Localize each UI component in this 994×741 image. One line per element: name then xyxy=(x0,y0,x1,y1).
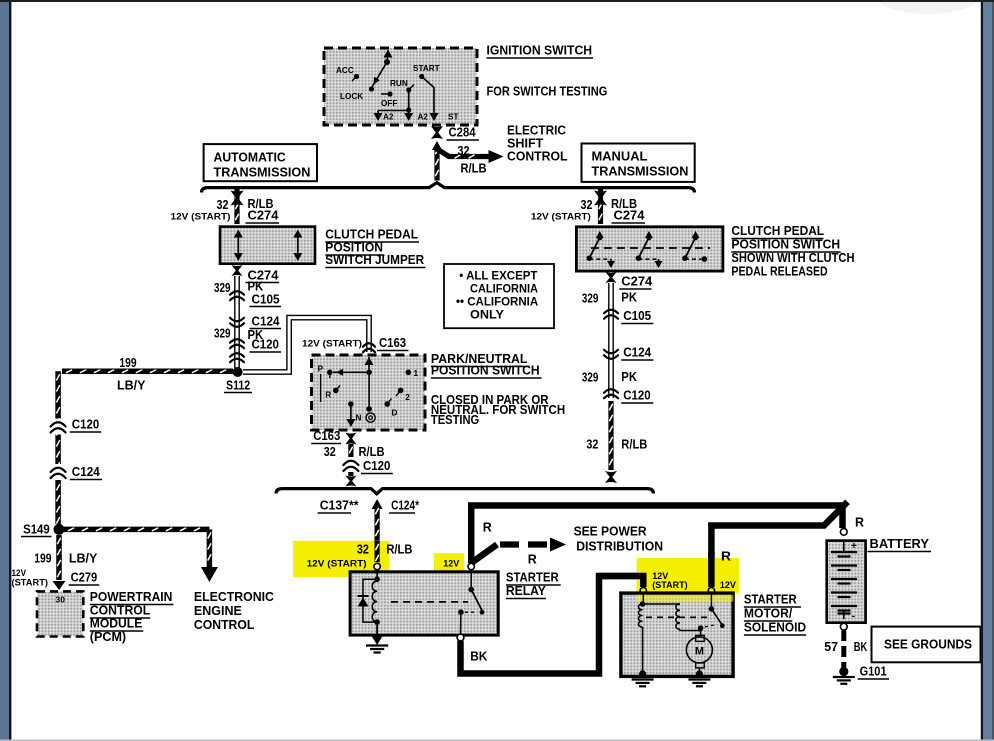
svg-text:OFF: OFF xyxy=(381,99,397,108)
svg-text:C105: C105 xyxy=(252,293,280,307)
svg-text:POSITION SWITCH: POSITION SWITCH xyxy=(431,364,540,378)
svg-text:IGNITION SWITCH: IGNITION SWITCH xyxy=(487,44,593,58)
svg-text:C124: C124 xyxy=(252,315,280,329)
svg-text:C124: C124 xyxy=(72,465,100,479)
svg-text:CLUTCH PEDAL: CLUTCH PEDAL xyxy=(325,228,418,242)
svg-text:R: R xyxy=(528,553,537,567)
svg-text:329: 329 xyxy=(582,371,599,385)
svg-text:AUTOMATIC: AUTOMATIC xyxy=(214,151,286,165)
svg-text:N: N xyxy=(356,414,362,423)
svg-text:+: + xyxy=(851,541,857,552)
svg-text:S112: S112 xyxy=(226,379,250,393)
svg-text:C105: C105 xyxy=(623,309,651,323)
svg-text:R: R xyxy=(721,550,731,564)
svg-text:12V: 12V xyxy=(12,568,27,578)
svg-text:ENGINE: ENGINE xyxy=(194,604,242,618)
svg-text:32: 32 xyxy=(581,198,593,212)
svg-text:12V (START): 12V (START) xyxy=(307,559,367,569)
svg-text:RUN: RUN xyxy=(390,79,408,88)
svg-text:30: 30 xyxy=(56,595,66,605)
svg-text:(START): (START) xyxy=(652,580,687,590)
svg-text:SHOWN WITH CLUTCH: SHOWN WITH CLUTCH xyxy=(731,251,854,265)
svg-text:C124: C124 xyxy=(623,346,651,360)
svg-text:R/LB: R/LB xyxy=(461,162,487,176)
svg-text:SEE POWER: SEE POWER xyxy=(574,525,647,539)
svg-text:LB/Y: LB/Y xyxy=(69,552,98,566)
svg-text:G101: G101 xyxy=(860,665,887,679)
svg-text:SHIFT: SHIFT xyxy=(507,137,544,151)
svg-text:ELECTRIC: ELECTRIC xyxy=(507,124,566,138)
svg-text:SWITCH JUMPER: SWITCH JUMPER xyxy=(325,253,424,267)
svg-text:C163: C163 xyxy=(379,336,406,350)
svg-text:329: 329 xyxy=(582,292,599,306)
svg-text:START: START xyxy=(413,64,440,73)
svg-text:M: M xyxy=(695,646,704,658)
svg-text:S149: S149 xyxy=(23,523,50,537)
svg-text:C120: C120 xyxy=(363,459,390,473)
svg-text:SOLENOID: SOLENOID xyxy=(744,621,806,635)
svg-text:(START): (START) xyxy=(12,578,49,588)
svg-text:R/LB: R/LB xyxy=(359,445,385,459)
svg-text:C274: C274 xyxy=(614,209,645,223)
svg-text:STARTER: STARTER xyxy=(506,571,559,585)
svg-text:STARTER: STARTER xyxy=(744,593,797,607)
svg-text:1: 1 xyxy=(414,369,419,378)
svg-text:C163: C163 xyxy=(313,429,340,443)
svg-text:POWERTRAIN: POWERTRAIN xyxy=(90,590,173,604)
svg-text:BATTERY: BATTERY xyxy=(870,537,930,551)
svg-text:-: - xyxy=(852,610,856,622)
svg-text:R/LB: R/LB xyxy=(386,543,412,557)
svg-text:12V (START): 12V (START) xyxy=(302,339,362,349)
svg-text:• ALL EXCEPT: • ALL EXCEPT xyxy=(459,271,537,283)
svg-text:DISTRIBUTION: DISTRIBUTION xyxy=(576,540,663,554)
svg-text:TRANSMISSION: TRANSMISSION xyxy=(592,165,689,179)
svg-text:P: P xyxy=(318,365,324,374)
svg-text:A2: A2 xyxy=(418,113,429,122)
svg-text:PK: PK xyxy=(621,291,637,305)
svg-text:BK: BK xyxy=(854,640,868,654)
svg-text:SEE GROUNDS: SEE GROUNDS xyxy=(884,638,972,652)
svg-text:C279: C279 xyxy=(71,571,98,585)
svg-text:D: D xyxy=(392,409,398,418)
svg-text:TRANSMISSION: TRANSMISSION xyxy=(214,166,311,180)
svg-text:12V: 12V xyxy=(443,559,459,569)
svg-text:32: 32 xyxy=(586,438,598,452)
svg-text:MOTOR/: MOTOR/ xyxy=(744,607,793,621)
svg-text:(PCM): (PCM) xyxy=(90,630,126,644)
svg-text:ACC: ACC xyxy=(336,66,354,75)
svg-text:PK: PK xyxy=(248,280,264,294)
svg-text:MANUAL: MANUAL xyxy=(592,150,648,164)
svg-text:CONTROL: CONTROL xyxy=(194,618,255,632)
svg-text:FOR SWITCH TESTING: FOR SWITCH TESTING xyxy=(487,85,608,99)
svg-text:12V (START): 12V (START) xyxy=(531,212,591,222)
svg-text:ONLY: ONLY xyxy=(470,310,504,322)
svg-text:C137**: C137** xyxy=(320,499,359,513)
svg-text:C120: C120 xyxy=(72,418,99,432)
svg-text:199: 199 xyxy=(119,356,136,370)
svg-text:R/LB: R/LB xyxy=(621,438,647,452)
svg-text:LOCK: LOCK xyxy=(340,92,363,101)
svg-text:C274: C274 xyxy=(621,275,652,289)
svg-text:C120: C120 xyxy=(623,389,650,403)
svg-text:C124*: C124* xyxy=(391,499,419,513)
svg-text:C284: C284 xyxy=(449,126,476,140)
svg-text:R: R xyxy=(483,521,492,535)
svg-text:RELAY: RELAY xyxy=(506,584,547,598)
svg-text:2: 2 xyxy=(405,393,410,402)
svg-text:A2: A2 xyxy=(383,113,394,122)
svg-text:32: 32 xyxy=(324,445,336,459)
svg-text:57: 57 xyxy=(824,640,838,654)
svg-text:C274: C274 xyxy=(248,209,279,223)
svg-text:CONTROL: CONTROL xyxy=(90,604,151,618)
svg-text:CALIFORNIA: CALIFORNIA xyxy=(470,284,538,296)
svg-text:PEDAL RELEASED: PEDAL RELEASED xyxy=(731,264,827,278)
svg-text:MODULE: MODULE xyxy=(90,617,143,631)
svg-text:32: 32 xyxy=(357,543,369,557)
svg-text:ELECTRONIC: ELECTRONIC xyxy=(194,590,274,604)
svg-text:TESTING: TESTING xyxy=(431,413,479,427)
svg-text:CONTROL: CONTROL xyxy=(507,150,568,164)
svg-text:LB/Y: LB/Y xyxy=(117,379,146,393)
svg-text:C120: C120 xyxy=(252,338,279,352)
svg-text:199: 199 xyxy=(34,552,51,566)
svg-text:BK: BK xyxy=(470,650,487,664)
svg-text:32: 32 xyxy=(217,198,229,212)
svg-text:329: 329 xyxy=(214,327,231,341)
svg-text:•• CALIFORNIA: •• CALIFORNIA xyxy=(456,297,538,309)
svg-text:ST: ST xyxy=(448,113,458,122)
svg-text:PK: PK xyxy=(621,370,637,384)
svg-text:CLUTCH PEDAL: CLUTCH PEDAL xyxy=(731,224,824,238)
svg-text:POSITION SWITCH: POSITION SWITCH xyxy=(731,237,840,251)
svg-text:R: R xyxy=(325,391,331,400)
svg-text:12V: 12V xyxy=(720,580,736,590)
svg-text:32: 32 xyxy=(458,144,470,158)
svg-text:12V (START): 12V (START) xyxy=(171,212,231,222)
svg-text:R: R xyxy=(855,516,864,530)
svg-text:329: 329 xyxy=(214,281,231,295)
